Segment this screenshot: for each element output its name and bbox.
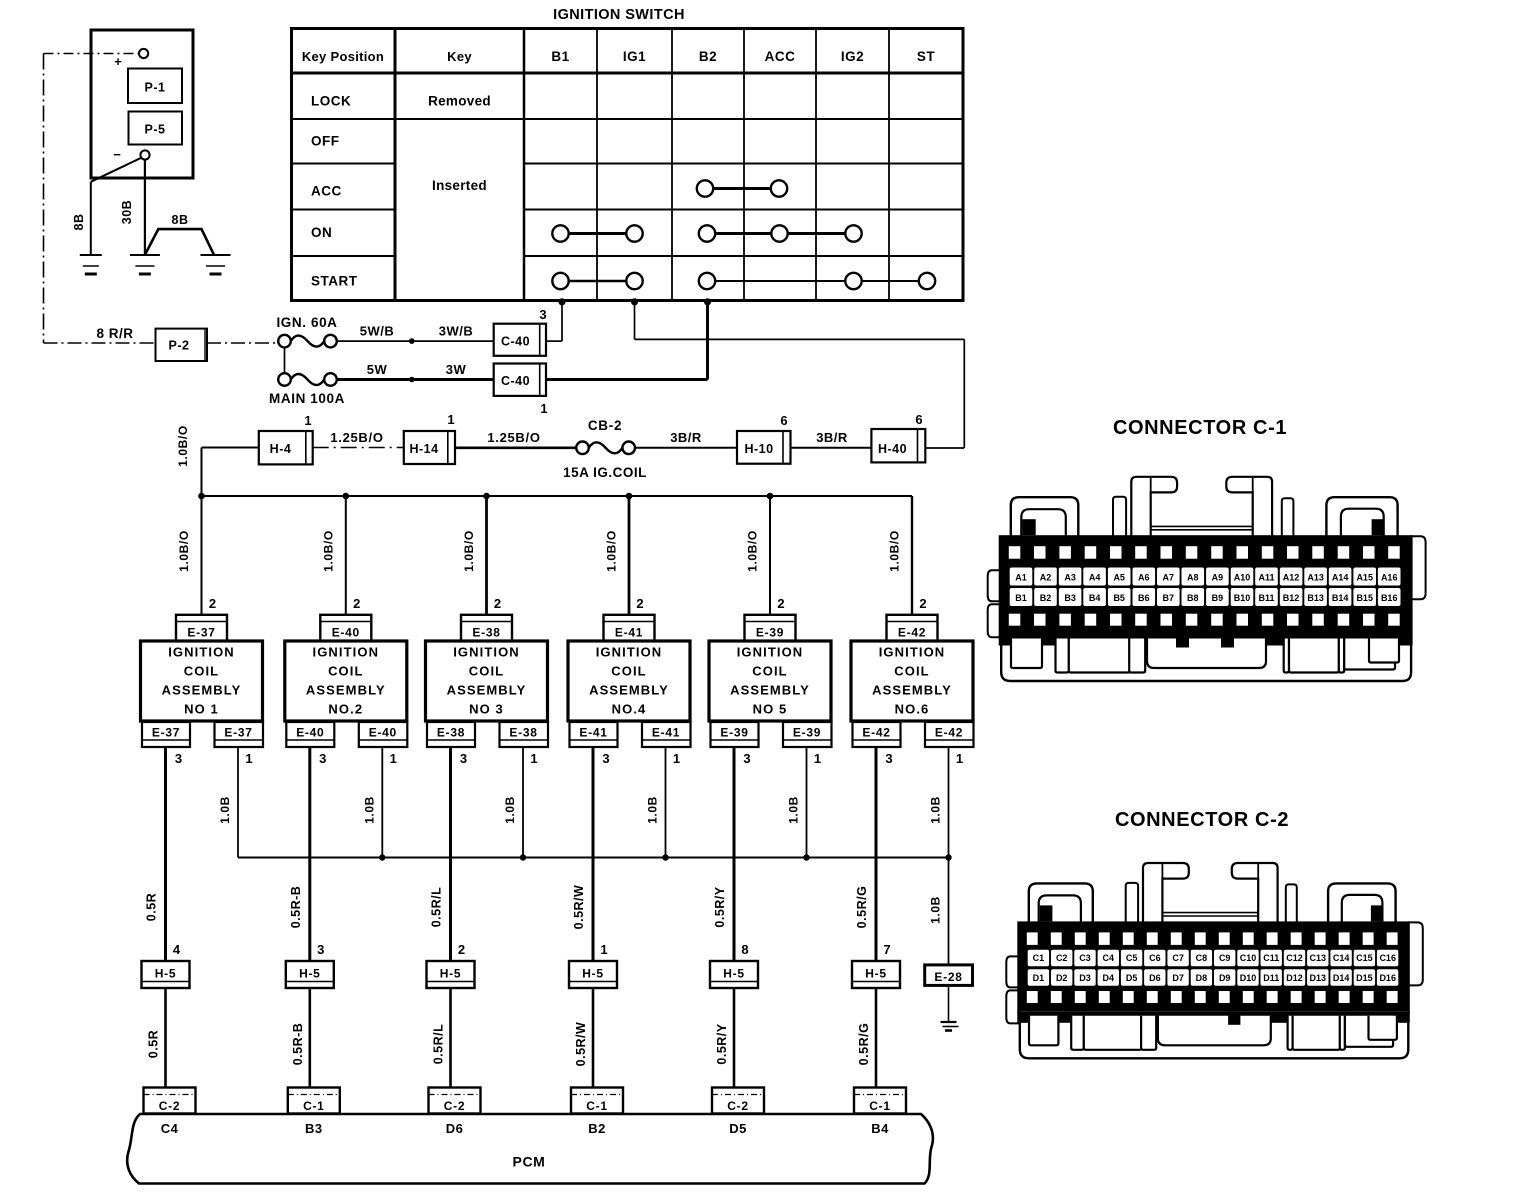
- table column line ACC/IG2: [815, 29, 817, 301]
- connector H-5 col 6: [852, 961, 900, 988]
- svg-text:A11: A11: [1258, 573, 1274, 583]
- connector C-2 left side tab lower: [1006, 990, 1019, 1023]
- wire 1.0B from coil 5 pin 1: [806, 747, 808, 858]
- svg-text:COIL: COIL: [328, 664, 363, 679]
- svg-text:3: 3: [885, 751, 892, 766]
- table column line B1/IG1: [596, 29, 598, 301]
- svg-text:C12: C12: [1286, 953, 1303, 963]
- svg-text:LOCK: LOCK: [311, 94, 351, 109]
- wire 0.5R/Y coil 5 to H-5: [733, 747, 736, 961]
- contact START row B1-IG1: [561, 280, 635, 282]
- svg-text:5W: 5W: [367, 362, 388, 377]
- svg-text:3: 3: [175, 751, 182, 766]
- ignition coil assembly U3: [426, 641, 548, 721]
- bus junction node 5: [767, 493, 774, 500]
- svg-text:2: 2: [919, 596, 926, 611]
- connector C-2 right strip: [1286, 884, 1297, 923]
- wire 8B down to ground: [90, 182, 92, 255]
- svg-text:NO.4: NO.4: [612, 702, 647, 717]
- connector C-1 housing center tabs: [1221, 635, 1234, 648]
- svg-text:B2: B2: [1040, 593, 1052, 603]
- connector C-1 lower housing black strip: [999, 635, 1413, 646]
- svg-text:1.0B: 1.0B: [646, 796, 660, 824]
- svg-text:D10: D10: [1240, 973, 1257, 983]
- svg-text:A3: A3: [1064, 573, 1076, 583]
- svg-text:7: 7: [883, 942, 890, 957]
- svg-text:ACC: ACC: [311, 184, 342, 199]
- connector E-40 bottom-left of coil 2: [286, 722, 334, 747]
- wire 0.5R coil 1 to H-5: [164, 747, 167, 961]
- svg-text:IGNITION: IGNITION: [737, 645, 804, 660]
- svg-text:ASSEMBLY: ASSEMBLY: [162, 683, 242, 698]
- svg-text:C-1: C-1: [586, 1099, 607, 1113]
- svg-text:A16: A16: [1381, 573, 1398, 583]
- wire 0.5R/G coil 6 to H-5: [875, 747, 878, 961]
- wire 1.0B/O feed to coil 2: [345, 496, 347, 615]
- table row line LOCK/OFF: [292, 118, 964, 120]
- connector C-1 left hook latch: [1131, 477, 1177, 537]
- svg-text:0.5R/G: 0.5R/G: [855, 886, 869, 929]
- connector H-4: [259, 431, 313, 464]
- svg-text:2: 2: [353, 596, 360, 611]
- connector H-40: [871, 429, 925, 462]
- connector E-37 bottom-right of coil 1: [215, 722, 264, 747]
- node B1 below table: [558, 298, 565, 305]
- wire 1.0B/O feed to coil 1: [201, 496, 203, 615]
- svg-text:E-39: E-39: [756, 626, 784, 640]
- svg-text:A2: A2: [1040, 573, 1052, 583]
- svg-text:C4: C4: [1103, 953, 1115, 963]
- connector C-2 housing center tabs: [1228, 1012, 1240, 1025]
- wire 8 R/R vertical from battery: [43, 54, 45, 344]
- svg-text:8 R/R: 8 R/R: [96, 326, 133, 341]
- svg-text:H-5: H-5: [582, 967, 603, 981]
- svg-text:ASSEMBLY: ASSEMBLY: [589, 683, 669, 698]
- wire C-40 upper to B1 contact: [546, 340, 562, 342]
- svg-text:ASSEMBLY: ASSEMBLY: [306, 683, 386, 698]
- ground G2: [130, 254, 160, 256]
- svg-text:C9: C9: [1219, 953, 1231, 963]
- svg-text:3: 3: [317, 942, 324, 957]
- fuse link between IGN and MAIN: [284, 347, 286, 374]
- wire 1.0B/O feed to coil 3: [485, 496, 488, 615]
- svg-text:B9: B9: [1212, 593, 1224, 603]
- svg-text:H-10: H-10: [744, 442, 773, 456]
- svg-text:1.0B: 1.0B: [362, 796, 376, 824]
- contact ON row B1-IG1: [561, 232, 635, 235]
- svg-text:B4: B4: [871, 1121, 889, 1136]
- svg-text:B3: B3: [305, 1121, 323, 1136]
- connector C-40 upper: [494, 324, 546, 356]
- svg-text:E-40: E-40: [296, 726, 324, 740]
- svg-text:E-38: E-38: [509, 726, 537, 740]
- junction dot 3W/B: [409, 338, 415, 344]
- svg-text:E-42: E-42: [862, 726, 890, 740]
- svg-text:B15: B15: [1356, 593, 1373, 603]
- table column line IG1/B2: [671, 29, 673, 301]
- svg-text:E-38: E-38: [437, 726, 465, 740]
- connector E-38 top of coil 3: [461, 615, 512, 641]
- svg-text:C-40: C-40: [501, 335, 530, 349]
- svg-text:2: 2: [458, 942, 465, 957]
- svg-text:6: 6: [915, 412, 922, 427]
- svg-text:A12: A12: [1283, 573, 1300, 583]
- svg-text:1: 1: [245, 751, 252, 766]
- svg-text:B6: B6: [1138, 593, 1150, 603]
- svg-text:C1: C1: [1033, 953, 1045, 963]
- svg-text:A10: A10: [1234, 573, 1251, 583]
- connector C-1 col 6: [854, 1088, 906, 1114]
- svg-text:Inserted: Inserted: [432, 178, 487, 193]
- svg-text:PCM: PCM: [513, 1154, 546, 1170]
- table column line B2/ACC: [743, 29, 745, 301]
- node IG1 below table: [631, 298, 638, 305]
- connector C-2 bridge lines: [1161, 912, 1258, 914]
- svg-text:COIL: COIL: [894, 664, 929, 679]
- wire 1.0B from coil 6 pin 1: [948, 747, 950, 858]
- table row line OFF/ACC: [292, 163, 396, 165]
- svg-text:ON: ON: [311, 225, 332, 240]
- svg-text:ST: ST: [917, 49, 936, 64]
- svg-text:C3: C3: [1079, 953, 1091, 963]
- table column line IG2/ST: [888, 29, 890, 301]
- svg-text:IGNITION: IGNITION: [879, 645, 946, 660]
- svg-text:0.5R/W: 0.5R/W: [574, 1022, 588, 1067]
- svg-text:A7: A7: [1163, 573, 1175, 583]
- svg-text:H-5: H-5: [723, 967, 744, 981]
- connector C-1 right hook latch: [1226, 477, 1272, 537]
- svg-text:H-40: H-40: [878, 442, 907, 456]
- svg-text:D5: D5: [729, 1121, 747, 1136]
- svg-text:A4: A4: [1089, 573, 1101, 583]
- svg-text:A9: A9: [1212, 573, 1224, 583]
- svg-text:B2: B2: [699, 49, 717, 64]
- ground G3: [201, 254, 231, 256]
- connector C-40 lower: [494, 364, 546, 396]
- svg-text:E-37: E-37: [152, 726, 180, 740]
- connector C-2 pin row C1-C16: [1028, 950, 1049, 967]
- wire CB-2 to H-10: [635, 447, 738, 449]
- connector E-39 bottom-left of coil 5: [711, 722, 759, 747]
- connector H-5 col 5: [710, 961, 758, 988]
- ground bus junction node 6: [945, 854, 951, 860]
- wire 8 R/R horizontal to P-2: [44, 342, 156, 344]
- connector C-2 left strip: [1126, 883, 1138, 924]
- svg-text:8B: 8B: [172, 213, 189, 227]
- svg-text:NO 3: NO 3: [469, 702, 504, 717]
- connector C-2 right latch: [1328, 883, 1396, 923]
- wire 0.5R H-5 to PCM connector col 1: [164, 988, 167, 1088]
- svg-text:C-1: C-1: [303, 1099, 324, 1113]
- svg-text:0.5R: 0.5R: [147, 1030, 161, 1058]
- wire 1.0B from coil 4 pin 1: [665, 747, 667, 858]
- connector C-2 col 1: [144, 1088, 196, 1114]
- connector E-40 bottom-right of coil 2: [359, 722, 408, 747]
- svg-text:NO 1: NO 1: [184, 702, 219, 717]
- svg-text:0.5R/G: 0.5R/G: [857, 1023, 871, 1066]
- svg-text:5W/B: 5W/B: [360, 324, 395, 339]
- connector E-42 top of coil 6: [887, 615, 938, 641]
- connector C-2 right hook latch: [1232, 863, 1278, 923]
- table column line after Key Position: [394, 29, 397, 301]
- table row line ON/START: [292, 255, 396, 257]
- circuit breaker CB-2: [576, 442, 589, 455]
- svg-text:D7: D7: [1172, 973, 1184, 983]
- bus junction node 1: [198, 493, 205, 500]
- coil feed bus 1.0B/O: [202, 495, 913, 497]
- svg-text:COIL: COIL: [469, 664, 504, 679]
- svg-text:IG2: IG2: [841, 49, 864, 64]
- wire 1.0B/O feed to coil 5: [769, 496, 771, 615]
- ignition coil assembly U2: [285, 641, 407, 721]
- connector C-1 right latch: [1326, 497, 1397, 537]
- connector E-41 top of coil 4: [604, 615, 655, 641]
- svg-text:B10: B10: [1234, 593, 1251, 603]
- svg-text:B1: B1: [1015, 593, 1027, 603]
- connector C-1 left strip: [1113, 497, 1126, 538]
- svg-text:1.0B/O: 1.0B/O: [888, 530, 902, 572]
- svg-text:1: 1: [447, 412, 454, 427]
- svg-text:E-39: E-39: [793, 726, 821, 740]
- svg-text:CONNECTOR C-2: CONNECTOR C-2: [1115, 809, 1289, 831]
- wire 0.5R-B coil 2 to H-5: [308, 747, 311, 961]
- svg-text:B4: B4: [1089, 593, 1101, 603]
- svg-text:1.0B: 1.0B: [929, 896, 943, 924]
- wire 8B trapezoid jumper: [145, 229, 214, 255]
- ground bus junction node 5: [803, 854, 809, 860]
- svg-text:C5: C5: [1126, 953, 1138, 963]
- connector C-2 housing slots: [1029, 1016, 1058, 1046]
- connector C-2 top index holes: [1027, 932, 1038, 945]
- svg-text:2: 2: [209, 596, 216, 611]
- connector C-1 right strip: [1282, 498, 1294, 537]
- table row line header/LOCK: [292, 72, 964, 75]
- svg-text:B11: B11: [1258, 593, 1274, 603]
- svg-text:0.5R/W: 0.5R/W: [572, 885, 586, 930]
- svg-text:+: +: [114, 54, 122, 69]
- ignition coil assembly U4: [568, 641, 690, 721]
- svg-text:1.0B/O: 1.0B/O: [605, 530, 619, 572]
- svg-text:1: 1: [390, 751, 397, 766]
- connector C-1 bottom index holes: [1009, 614, 1021, 626]
- svg-text:B14: B14: [1332, 593, 1349, 603]
- svg-text:C7: C7: [1172, 953, 1184, 963]
- connector C-1 pin row A1-A16: [1010, 568, 1033, 586]
- svg-text:D13: D13: [1310, 973, 1327, 983]
- ignition switch table frame: [292, 29, 964, 301]
- connector C-2 left side tab upper: [1006, 956, 1019, 987]
- svg-text:1: 1: [673, 751, 680, 766]
- connector E-40 top of coil 2: [320, 615, 371, 641]
- svg-text:A14: A14: [1332, 573, 1349, 583]
- svg-text:C13: C13: [1310, 953, 1327, 963]
- ignition coil assembly U6: [851, 641, 973, 721]
- svg-text:0.5R/Y: 0.5R/Y: [713, 886, 727, 927]
- svg-text:6: 6: [780, 413, 787, 428]
- wire 1.0B from coil 3 pin 1: [522, 747, 524, 858]
- connector E-37 bottom-left of coil 1: [142, 722, 190, 747]
- svg-text:C11: C11: [1263, 953, 1279, 963]
- connector C-1 top index holes: [1009, 546, 1021, 559]
- connector C-2 bottom index holes: [1027, 991, 1038, 1003]
- connector C-1 col 4: [571, 1088, 623, 1114]
- connector E-41 bottom-left of coil 4: [570, 722, 618, 747]
- plus terminal: [139, 49, 148, 58]
- svg-text:1.0B/O: 1.0B/O: [177, 530, 191, 572]
- svg-text:C2: C2: [1056, 953, 1068, 963]
- connector C-1 bridge lines: [1151, 525, 1253, 527]
- svg-text:D5: D5: [1126, 973, 1138, 983]
- connector C-2 lower housing outline: [1020, 1012, 1409, 1059]
- contact ACC row B2-ACC: [705, 187, 779, 190]
- connector H-5 col 2: [286, 961, 334, 988]
- svg-text:E-40: E-40: [369, 726, 397, 740]
- svg-text:C6: C6: [1149, 953, 1161, 963]
- svg-text:C-1: C-1: [869, 1099, 890, 1113]
- svg-text:IGNITION SWITCH: IGNITION SWITCH: [553, 7, 685, 23]
- svg-text:B7: B7: [1163, 593, 1175, 603]
- PCM module outline: [127, 1114, 933, 1184]
- svg-text:ASSEMBLY: ASSEMBLY: [730, 683, 810, 698]
- fuse box P-5: [129, 112, 183, 145]
- svg-text:NO.2: NO.2: [328, 702, 363, 717]
- svg-text:1.25B/O: 1.25B/O: [330, 430, 383, 445]
- svg-text:B8: B8: [1187, 593, 1199, 603]
- svg-text:1.0B: 1.0B: [503, 796, 517, 824]
- svg-text:1.0B/O: 1.0B/O: [176, 425, 190, 467]
- svg-text:D1: D1: [1033, 973, 1045, 983]
- svg-text:D6: D6: [1149, 973, 1161, 983]
- connector E-39 bottom-right of coil 5: [783, 722, 832, 747]
- bus junction node 2: [343, 493, 350, 500]
- svg-text:2: 2: [777, 596, 784, 611]
- connector C-2 col 3: [429, 1088, 481, 1114]
- svg-text:A6: A6: [1138, 573, 1150, 583]
- svg-text:E-38: E-38: [472, 626, 500, 640]
- svg-text:IGNITION: IGNITION: [168, 645, 235, 660]
- connector E-42 bottom-right of coil 6: [925, 722, 974, 747]
- svg-text:B13: B13: [1307, 593, 1324, 603]
- ground bus junction node 4: [662, 854, 668, 860]
- wire 1.0B from coil 1 pin 1: [237, 747, 239, 858]
- wire H-10 to H-40: [791, 447, 872, 449]
- svg-text:1: 1: [600, 942, 607, 957]
- svg-text:ASSEMBLY: ASSEMBLY: [447, 683, 527, 698]
- connector C-1 left side tab lower: [988, 604, 1001, 637]
- svg-text:C-2: C-2: [727, 1099, 748, 1113]
- ground bus junction node 3: [520, 854, 526, 860]
- wire 0.5R-B H-5 to PCM connector col 2: [308, 988, 311, 1088]
- svg-text:P-1: P-1: [145, 81, 166, 95]
- ground E-28: [941, 1021, 957, 1023]
- svg-text:C14: C14: [1333, 953, 1350, 963]
- svg-text:C16: C16: [1379, 953, 1396, 963]
- svg-text:E-37: E-37: [224, 726, 252, 740]
- svg-text:OFF: OFF: [311, 134, 340, 149]
- wire dash-dot from plus terminal: [44, 53, 139, 55]
- svg-text:E-39: E-39: [720, 726, 748, 740]
- wire bus corner to H-4: [201, 448, 203, 497]
- svg-text:1.0B/O: 1.0B/O: [321, 530, 335, 572]
- fusible link box P-2: [156, 329, 208, 361]
- svg-text:IGNITION: IGNITION: [453, 645, 520, 660]
- wire C-40 lower to B2 contact: [546, 378, 708, 381]
- wire 0.5R/W coil 4 to H-5: [592, 747, 595, 961]
- svg-text:E-37: E-37: [187, 626, 215, 640]
- svg-text:1.0B: 1.0B: [787, 796, 801, 824]
- svg-text:3: 3: [743, 751, 750, 766]
- wire 1.0B/O feed to coil 6: [911, 496, 913, 615]
- connector C-1 right side tab: [1411, 536, 1426, 599]
- svg-text:C-2: C-2: [444, 1099, 465, 1113]
- svg-text:NO 5: NO 5: [753, 702, 788, 717]
- connector C-1 pin row B1-B16: [1010, 588, 1033, 606]
- connector E-41 bottom-right of coil 4: [642, 722, 691, 747]
- svg-text:A13: A13: [1307, 573, 1324, 583]
- connector E-38 bottom-left of coil 3: [427, 722, 475, 747]
- svg-text:3: 3: [460, 751, 467, 766]
- connector E-28: [925, 965, 973, 986]
- svg-text:CB-2: CB-2: [588, 418, 622, 433]
- svg-text:H-5: H-5: [865, 967, 886, 981]
- table column line after Key: [523, 29, 526, 301]
- svg-text:4: 4: [173, 942, 181, 957]
- svg-text:IG1: IG1: [623, 49, 646, 64]
- ground bus junction node 2: [379, 854, 385, 860]
- connector H-5 col 3: [427, 961, 475, 988]
- svg-text:D6: D6: [446, 1121, 464, 1136]
- minus terminal: [140, 150, 149, 159]
- svg-text:COIL: COIL: [752, 664, 787, 679]
- svg-text:CONNECTOR C-1: CONNECTOR C-1: [1113, 417, 1287, 439]
- svg-text:0.5R/Y: 0.5R/Y: [715, 1023, 729, 1064]
- connector H-14: [404, 431, 455, 464]
- svg-text:C10: C10: [1240, 953, 1257, 963]
- svg-text:E-41: E-41: [579, 726, 607, 740]
- connector C-1 body: [999, 535, 1413, 636]
- contact ON row B2-ACC-IG2: [707, 232, 854, 235]
- svg-text:E-40: E-40: [332, 626, 360, 640]
- svg-text:1: 1: [814, 751, 821, 766]
- svg-text:NO.6: NO.6: [895, 702, 930, 717]
- fuse box P-1: [128, 69, 182, 104]
- wire 1.0B/O feed to coil 4: [628, 496, 631, 615]
- svg-text:1.25B/O: 1.25B/O: [487, 430, 540, 445]
- connector E-37 top of coil 1: [176, 615, 227, 641]
- svg-text:1: 1: [304, 413, 311, 428]
- connector C-2 pin row D1-D16: [1028, 969, 1049, 986]
- svg-text:0.5R/L: 0.5R/L: [432, 1024, 446, 1065]
- svg-text:0.5R/L: 0.5R/L: [430, 887, 444, 928]
- svg-text:1: 1: [540, 401, 547, 416]
- wire 0.5R/L H-5 to PCM connector col 3: [449, 988, 452, 1088]
- svg-text:15A IG.COIL: 15A IG.COIL: [563, 465, 647, 480]
- connector H-10: [737, 431, 791, 464]
- wire 0.5R/W H-5 to PCM connector col 4: [592, 988, 595, 1088]
- coil ground bus 1.0B: [238, 857, 949, 859]
- wire 0.5R/L coil 3 to H-5: [449, 747, 452, 961]
- svg-text:C15: C15: [1356, 953, 1373, 963]
- svg-text:C-40: C-40: [501, 374, 530, 388]
- svg-text:A15: A15: [1356, 573, 1373, 583]
- svg-text:H-14: H-14: [409, 442, 438, 456]
- svg-text:H-5: H-5: [440, 967, 461, 981]
- svg-text:B16: B16: [1381, 593, 1398, 603]
- connector C-2 right side tab: [1408, 922, 1423, 985]
- svg-text:B12: B12: [1283, 593, 1300, 603]
- contact START row B2-IG2-ST: [707, 280, 927, 282]
- connector E-42 bottom-left of coil 6: [853, 722, 901, 747]
